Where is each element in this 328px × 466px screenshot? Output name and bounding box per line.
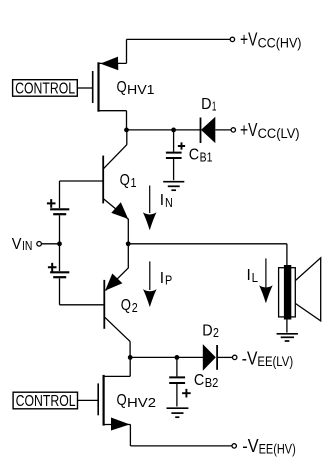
wire: output to loudspeaker bbox=[128, 244, 287, 266]
wire: QHV1 source to LV rail node bbox=[126, 111, 128, 130]
label: VIN bbox=[12, 236, 33, 253]
svg-text:I: I bbox=[160, 192, 164, 209]
svg-text:CC(LV): CC(LV) bbox=[258, 126, 300, 141]
diode D1 bbox=[201, 117, 232, 143]
transistor Q1 bbox=[103, 130, 128, 244]
svg-text:B1: B1 bbox=[200, 150, 213, 165]
svg-text:2: 2 bbox=[132, 300, 138, 315]
label: CB2 bbox=[194, 372, 218, 390]
svg-text:-V: -V bbox=[242, 436, 258, 456]
svg-text:D: D bbox=[201, 96, 211, 113]
svg-text:2: 2 bbox=[213, 325, 219, 340]
svg-text:HV1: HV1 bbox=[127, 82, 155, 97]
node: CB1 tap on LV rail bbox=[171, 127, 176, 132]
svg-text:P: P bbox=[165, 273, 172, 288]
battery (lower) bbox=[48, 244, 69, 305]
svg-text:B2: B2 bbox=[205, 375, 219, 390]
label: CB1 bbox=[189, 147, 213, 165]
node: junction QHV1/Q1 collector on LV rail bbox=[124, 127, 129, 132]
ground (loudspeaker) bbox=[277, 334, 298, 341]
diode D2 bbox=[203, 344, 233, 371]
node: junction Q2 collector/QHV2 on LV rail bbox=[128, 355, 133, 360]
control box 2 (CONTROL) bbox=[13, 392, 77, 409]
label: -VEE(LV) bbox=[242, 348, 293, 369]
svg-text:EE(HV): EE(HV) bbox=[259, 442, 296, 457]
svg-text:N: N bbox=[165, 195, 173, 210]
svg-text:+V: +V bbox=[240, 120, 257, 140]
svg-text:I: I bbox=[160, 270, 164, 287]
label: +VCC(HV) bbox=[240, 30, 302, 51]
current arrow IP bbox=[143, 261, 157, 307]
wire: +VCC(HV) feed from QHV1 drain bbox=[127, 39, 231, 63]
svg-text:L: L bbox=[252, 270, 258, 285]
svg-text:D: D bbox=[202, 322, 212, 339]
wire: -VEE(HV) feed from QHV2 source bbox=[130, 424, 232, 446]
node: -VEE(LV) terminal bbox=[233, 355, 237, 359]
label: IL current bbox=[247, 267, 259, 285]
wire: +VCC(LV) rail bbox=[127, 129, 201, 131]
capacitor CB2 bbox=[169, 357, 191, 406]
label: D2 bbox=[202, 322, 219, 340]
svg-text:HV2: HV2 bbox=[127, 395, 156, 410]
label: IP current bbox=[160, 270, 172, 288]
svg-text:I: I bbox=[247, 267, 251, 284]
current arrow IL bbox=[259, 258, 273, 303]
svg-text:-V: -V bbox=[242, 348, 258, 368]
svg-text:1: 1 bbox=[131, 175, 137, 190]
wire: Q1 base lead bbox=[60, 180, 104, 182]
capacitor CB1 bbox=[166, 130, 185, 180]
svg-text:EE(LV): EE(LV) bbox=[257, 354, 293, 369]
loudspeaker LOAD bbox=[279, 258, 321, 333]
svg-text:+V: +V bbox=[240, 30, 257, 50]
transistor QHV2 bbox=[78, 357, 131, 430]
node: CB2 tap on -VEE(LV) rail bbox=[175, 355, 180, 360]
ground (CB2) bbox=[167, 408, 189, 417]
node: +VCC(HV) terminal bbox=[230, 37, 234, 41]
label: QHV2 bbox=[117, 392, 157, 410]
node: -VEE(HV) terminal bbox=[232, 444, 236, 448]
svg-text:CONTROL: CONTROL bbox=[16, 393, 76, 410]
svg-text:C: C bbox=[194, 372, 204, 389]
ground (CB1) bbox=[163, 182, 184, 191]
svg-text:Q: Q bbox=[117, 392, 127, 409]
svg-text:C: C bbox=[189, 147, 199, 164]
svg-text:IN: IN bbox=[22, 239, 32, 253]
svg-text:Q: Q bbox=[117, 79, 127, 96]
node: battery midpoint junction bbox=[57, 241, 62, 246]
control box 1 (CONTROL) bbox=[13, 80, 78, 97]
svg-text:V: V bbox=[12, 236, 22, 253]
label: Q1 bbox=[120, 172, 137, 190]
label: +VCC(LV) bbox=[240, 120, 300, 141]
label: QHV1 bbox=[117, 79, 155, 97]
wire: -VEE(LV) rail bbox=[130, 356, 203, 358]
battery (upper) bbox=[47, 181, 69, 244]
transistor QHV1 bbox=[77, 57, 126, 112]
node: output node bbox=[126, 241, 131, 246]
transistor Q2 bbox=[104, 244, 130, 358]
wire: Q2 base lead bbox=[60, 304, 105, 306]
label: D1 bbox=[201, 96, 216, 114]
svg-text:Q: Q bbox=[120, 172, 130, 189]
node: +VCC(LV) terminal bbox=[231, 128, 235, 132]
current arrow IN bbox=[143, 186, 157, 231]
wire: VIN lead bbox=[41, 243, 59, 245]
node: VIN terminal bbox=[37, 242, 42, 247]
svg-text:CC(HV): CC(HV) bbox=[258, 35, 302, 50]
label: Q2 bbox=[121, 297, 138, 315]
svg-text:Q: Q bbox=[121, 297, 131, 314]
label: IN current bbox=[160, 192, 173, 210]
svg-text:1: 1 bbox=[212, 99, 217, 114]
label: -VEE(HV) bbox=[242, 436, 296, 457]
svg-text:CONTROL: CONTROL bbox=[15, 80, 75, 97]
